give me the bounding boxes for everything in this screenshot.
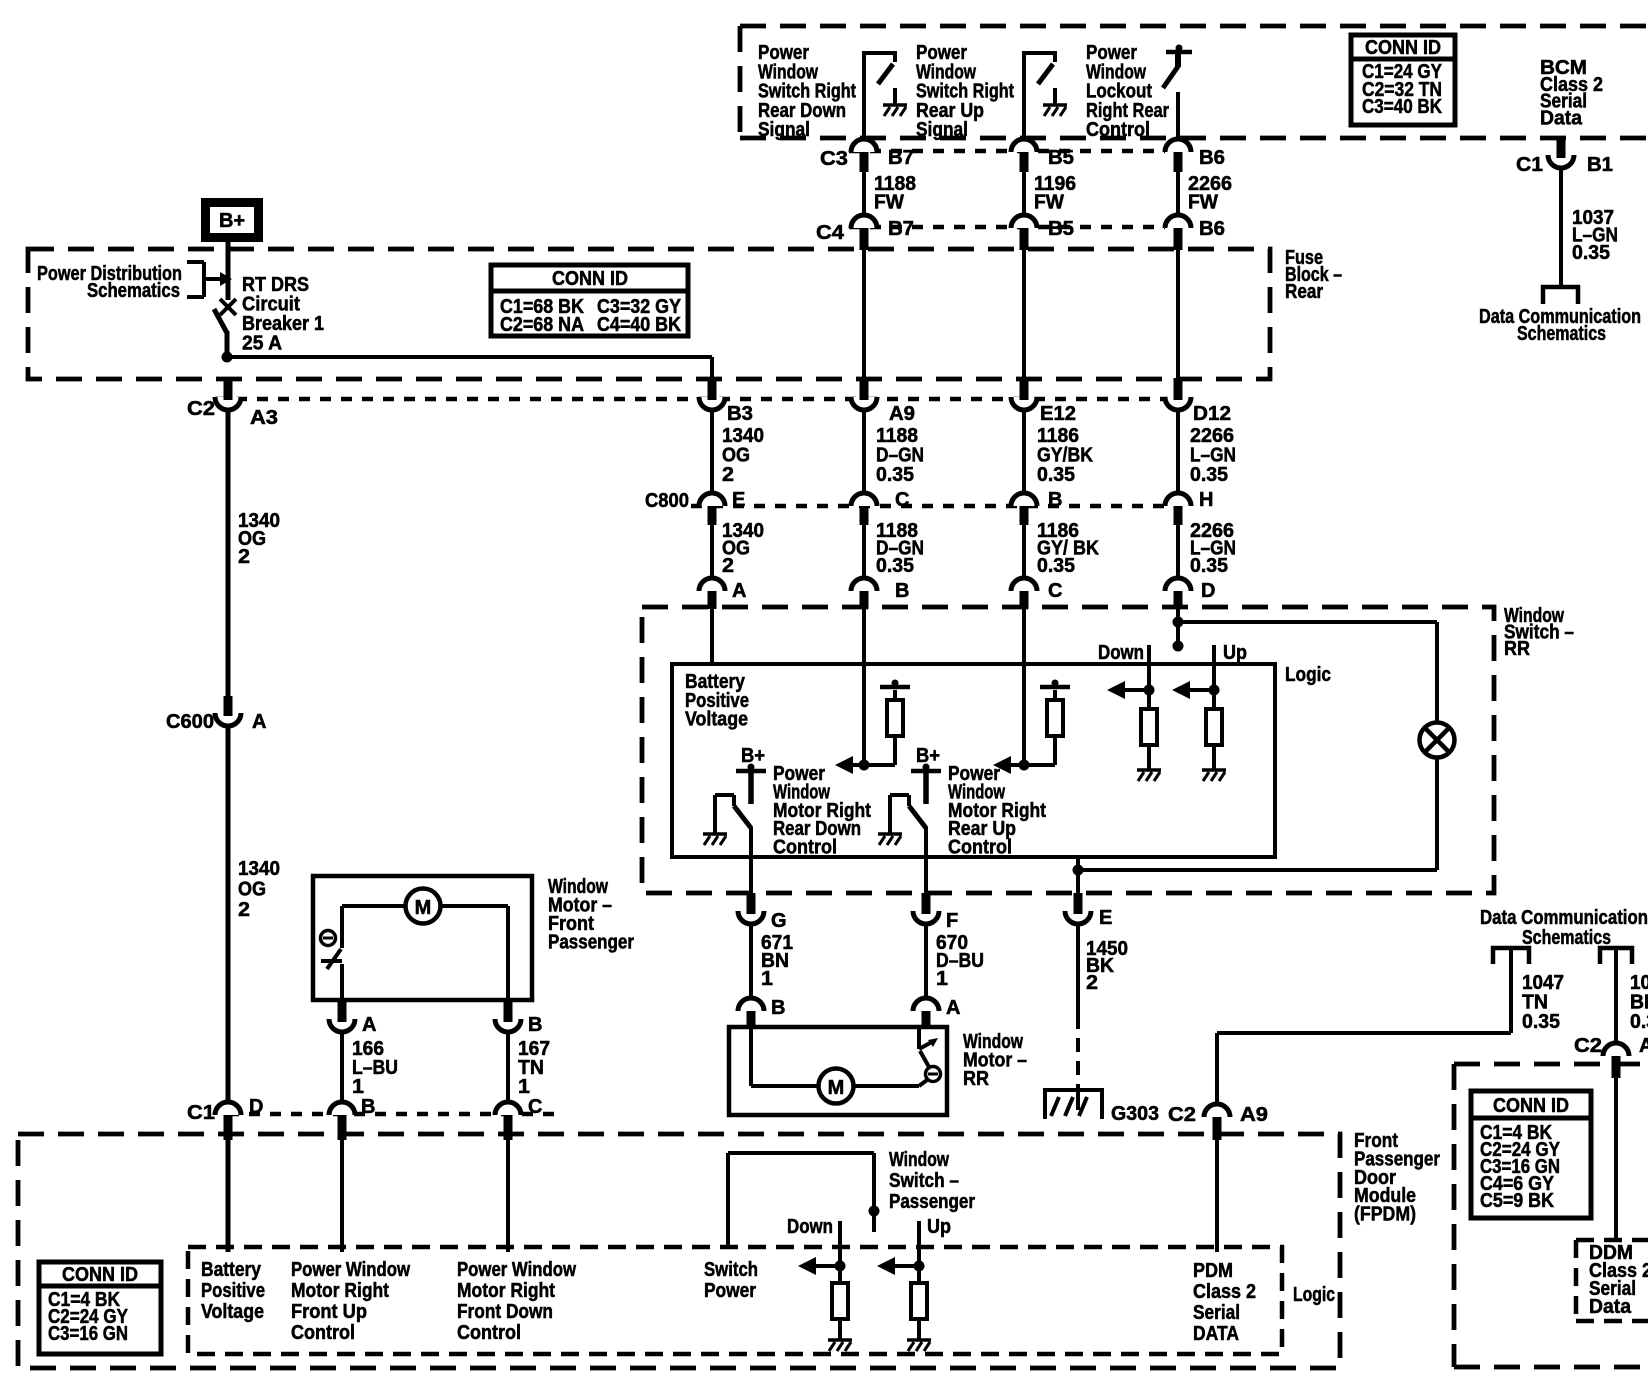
motor M (front passenger) [342, 889, 508, 1001]
junction: breaker output node [222, 352, 233, 363]
wire 1340 OG 2 (C800 E to switch A) [712, 520, 764, 578]
svg-text:Battery: Battery [201, 1259, 262, 1281]
wire 166 L-BU 1 (A to C1 B) [342, 1032, 398, 1102]
svg-text:2: 2 [238, 546, 250, 568]
label: Front Passenger Door Module (FPDM) [1354, 1130, 1440, 1226]
svg-text:M: M [828, 1077, 845, 1099]
svg-text:B+: B+ [916, 745, 940, 767]
connector C4 pin B5 [1011, 215, 1074, 250]
svg-text:B+: B+ [219, 210, 245, 232]
junction: lamp return / E pin [1073, 857, 1084, 893]
connector C600 pin A [166, 696, 266, 733]
svg-text:C2=68 NA: C2=68 NA [500, 314, 584, 336]
label: Switch Power [704, 1259, 758, 1302]
label: Fuse Block - Rear [1285, 247, 1342, 303]
svg-text:0.35: 0.35 [876, 555, 914, 577]
svg-text:B: B [1048, 489, 1062, 511]
connector C4 pin B6 [1165, 215, 1225, 250]
reference bracket to Power Distribution Schematics [187, 262, 232, 297]
in-line connector row C3 (dotted) [849, 149, 1165, 154]
label: DDM Class 2 Serial Data [1589, 1242, 1648, 1318]
connector C1 pin B [329, 1096, 375, 1140]
label: Power Window Motor Right Front Down Control [457, 1259, 576, 1344]
svg-text:CONN ID: CONN ID [62, 1264, 138, 1286]
svg-text:Passenger: Passenger [889, 1191, 975, 1213]
wire 1188 D-GN 0.35 (A9 to C800 C) [864, 410, 924, 493]
svg-text:C: C [1048, 580, 1062, 602]
svg-text:Power Window: Power Window [457, 1259, 576, 1281]
wire: rear down motor control to pin G [749, 827, 753, 893]
connector pin E12 [1011, 250, 1076, 425]
svg-text:C5=9 BK: C5=9 BK [1480, 1190, 1554, 1212]
svg-text:Control: Control [773, 837, 837, 859]
svg-text:Up: Up [927, 1216, 951, 1238]
label: Down (passenger switch) [787, 1216, 833, 1238]
svg-text:Data: Data [1589, 1296, 1632, 1318]
svg-text:A3: A3 [250, 407, 278, 429]
svg-text:E: E [1099, 907, 1112, 929]
svg-text:B1: B1 [1587, 154, 1613, 176]
svg-text:1: 1 [518, 1076, 530, 1098]
svg-text:B6: B6 [1199, 218, 1225, 240]
label: Data Communication Schematics (BCM) [1479, 306, 1641, 345]
svg-text:H: H [1199, 489, 1213, 511]
resistor: up sense [1206, 709, 1222, 769]
wire: battery positive into FPDM logic [226, 1140, 231, 1252]
thermal breaker and switch (motor front) [321, 906, 343, 1000]
svg-text:(FPDM): (FPDM) [1354, 1204, 1416, 1226]
switch contact to ground (rear up) [878, 795, 909, 845]
svg-text:C4: C4 [816, 222, 845, 244]
label: Window Motor - Front Passenger [548, 876, 634, 954]
bracket: data communication schematics (pdm) [1217, 948, 1529, 1104]
wire 1186 GY/BK 0.35 (E12 to C800 B) [1024, 410, 1093, 493]
svg-text:Motor Right: Motor Right [457, 1280, 555, 1302]
wire 1037 L-GN 0.35 [1561, 168, 1618, 287]
connector switch pin D [1165, 578, 1215, 609]
wire 2266 FW (B6 to B6) [1178, 172, 1232, 216]
svg-text:OG: OG [238, 879, 266, 901]
ground (passenger down) [828, 1338, 852, 1342]
connector C4 pin B7 [816, 215, 914, 250]
bracket: data communication schematics (ddm) [1600, 948, 1632, 1043]
connector motor pin A [913, 997, 960, 1029]
connector switch pin B [851, 578, 909, 609]
svg-text:Front Up: Front Up [291, 1301, 367, 1323]
node: rear up drive junction with arrow [993, 756, 1055, 774]
connector C1 pin C [495, 1096, 542, 1140]
label: Window Switch - Passenger [889, 1149, 975, 1213]
connector C800 pin B [1011, 489, 1062, 525]
svg-text:DATA: DATA [1193, 1323, 1239, 1345]
svg-text:Schematics: Schematics [1517, 323, 1606, 345]
connector C2 pin A (DDM) [1574, 1035, 1648, 1078]
label: PDM Class 2 Serial DATA [1193, 1260, 1256, 1345]
svg-text:Positive: Positive [201, 1280, 265, 1302]
svg-text:D: D [249, 1096, 263, 1118]
connector motor pin B [738, 997, 785, 1029]
svg-text:Up: Up [1223, 642, 1247, 664]
wire: B3 drop [710, 357, 714, 378]
wire: PDM class 2 serial data [1215, 1140, 1219, 1252]
resistor: rear up pull-up [1040, 680, 1070, 766]
svg-text:0.35: 0.35 [876, 464, 914, 486]
svg-text:B+: B+ [741, 745, 765, 767]
svg-text:0.35: 0.35 [1190, 555, 1228, 577]
svg-text:Schematics: Schematics [87, 280, 180, 302]
svg-text:G303: G303 [1111, 1103, 1159, 1125]
svg-text:B3: B3 [727, 403, 753, 425]
svg-text:B5: B5 [1048, 218, 1074, 240]
svg-text:C3=40 BK: C3=40 BK [1362, 96, 1442, 118]
wire: front up control into FPDM logic [340, 1140, 344, 1252]
svg-text:C1: C1 [1516, 154, 1543, 176]
svg-text:Logic: Logic [1293, 1284, 1335, 1306]
svg-text:A9: A9 [889, 403, 915, 425]
svg-text:1: 1 [352, 1076, 364, 1098]
svg-text:2: 2 [722, 555, 734, 577]
motor M (RR) [751, 1029, 919, 1104]
circuit breaker RT DRS Circuit Breaker 1 25 A [214, 240, 236, 359]
svg-text:Serial: Serial [1193, 1302, 1240, 1324]
wire: feed to indicator lamp [1178, 622, 1437, 723]
svg-text:Down: Down [787, 1216, 833, 1238]
FPDM logic dashed sub-box [188, 1247, 1282, 1354]
wire 1196 FW (B5 to B5) [1024, 172, 1076, 216]
svg-text:E: E [732, 489, 745, 511]
connector C2 pin A3 [187, 378, 278, 429]
svg-text:Schematics: Schematics [1522, 927, 1611, 949]
wire 2266 L-GN 0.35 (C800 H to switch D) [1178, 520, 1236, 578]
svg-text:B6: B6 [1199, 147, 1225, 169]
CONN ID table (DDM): C1=4 BK C2=24 GY C3=16 GN C4=6 GY C5=9 BK [1471, 1091, 1591, 1218]
in-line connector C800 row (dotted) [691, 504, 1168, 509]
svg-text:Passenger: Passenger [548, 932, 634, 954]
svg-text:F: F [946, 910, 958, 932]
svg-text:B7: B7 [888, 147, 914, 169]
connector C800 pin H [1165, 489, 1213, 525]
svg-text:A: A [362, 1014, 376, 1036]
label: 1047 TN 0.35 [1522, 972, 1564, 1033]
svg-text:A: A [1639, 1035, 1648, 1057]
wire 1340 OG 2 (C600 to FPDM C1 D) [228, 726, 280, 1102]
thermal breaker and switch (motor RR) [919, 1029, 941, 1086]
svg-text:Signal: Signal [758, 119, 810, 141]
connector C3 pin B5 [1011, 139, 1074, 172]
in-line connector row C4 (dotted) [849, 225, 1165, 230]
svg-text:FW: FW [1188, 192, 1218, 214]
bracket: data communication schematics (bcm) [1543, 287, 1578, 304]
CONN ID table (fuse block): C1=68 BK C2=68 NA C3=32 GY C4=40 BK [491, 265, 688, 336]
svg-text:B5: B5 [1048, 147, 1074, 169]
svg-text:Logic: Logic [1285, 664, 1331, 686]
label: Up (switch RR) [1223, 642, 1247, 664]
svg-text:C3=16 GN: C3=16 GN [48, 1323, 128, 1345]
wire 670 D-BU 1 (F to motor A) [926, 924, 984, 998]
node: rear down drive junction with arrow [835, 756, 895, 774]
svg-text:C2: C2 [187, 398, 215, 420]
wire 1188 FW (B7 to B7) [864, 172, 916, 216]
CONN ID table (FPDM): C1=4 BK C2=24 GY C3=16 GN [39, 1262, 161, 1354]
wire: front down control into FPDM logic [506, 1140, 510, 1252]
svg-text:A9: A9 [1240, 1104, 1268, 1126]
B+ terminal box [206, 203, 259, 238]
svg-text:E12: E12 [1040, 403, 1076, 425]
wire: DDM class 2 serial data [1614, 1078, 1618, 1240]
svg-text:D: D [1201, 580, 1215, 602]
svg-text:0.35: 0.35 [1190, 464, 1228, 486]
svg-text:RR: RR [963, 1068, 989, 1090]
svg-text:PDM: PDM [1193, 1260, 1233, 1282]
wire 1186 GY/ BK 0.35 (C800 B to switch C) [1024, 520, 1099, 578]
connector pin D12 [1165, 250, 1231, 425]
svg-text:Control: Control [291, 1322, 355, 1344]
svg-text:FW: FW [1034, 192, 1064, 214]
svg-text:C: C [528, 1096, 542, 1118]
connector C800 pin C [851, 489, 909, 525]
lamp: switch illumination [1420, 723, 1455, 758]
in-line connector row C1 (dotted) [228, 1112, 560, 1117]
svg-text:2: 2 [722, 464, 734, 486]
svg-text:C600: C600 [166, 711, 214, 733]
connector C3 pin B6 [1165, 139, 1225, 172]
label: Power Window Motor Right Rear Up Control [948, 763, 1046, 859]
switch S3: Power Window Lockout Right Rear [1163, 45, 1192, 142]
node: BCM Class 2 Serial Data [1540, 57, 1603, 129]
svg-text:CONN ID: CONN ID [552, 268, 628, 290]
label: Power Distribution Schematics [37, 263, 182, 302]
switch blade (rear up control) [909, 806, 926, 828]
wire: battery positive input into logic [710, 609, 714, 666]
wire: down switch leg (passenger) [798, 1221, 846, 1283]
label: Logic (window switch RR) [1285, 664, 1331, 686]
ground (passenger up) [907, 1338, 931, 1342]
label: Logic (FPDM) [1293, 1284, 1335, 1306]
connector C3 pin B7 [820, 139, 914, 172]
svg-text:0.35: 0.35 [1630, 1011, 1648, 1033]
svg-text:B: B [528, 1014, 542, 1036]
connector pin B3 [699, 378, 753, 425]
resistor: down sense (passenger) [832, 1283, 848, 1339]
label: Power Window Switch Right Rear Up Signal [916, 42, 1014, 141]
label: Power Window Lockout Right Rear Control [1086, 42, 1169, 141]
svg-text:B7: B7 [888, 218, 914, 240]
svg-text:Down: Down [1098, 642, 1144, 664]
svg-text:Control: Control [948, 837, 1012, 859]
connector pin F [913, 893, 958, 932]
svg-text:CONN ID: CONN ID [1365, 37, 1441, 59]
ground G303 [1045, 1090, 1102, 1119]
label: Battery Positive Voltage (logic) [685, 671, 749, 731]
label: Battery Positive Voltage (FPDM) [201, 1259, 265, 1323]
svg-text:Switch: Switch [704, 1259, 758, 1281]
connector motor front pin B [495, 1001, 542, 1036]
label: Data Communication Schematics (lower) [1480, 907, 1648, 949]
svg-text:C2: C2 [1574, 1035, 1602, 1057]
window switch assembly dashed box (top) [740, 26, 1648, 138]
connector C800 label [645, 490, 689, 512]
connector C1 pin B1 (BCM) [1516, 139, 1613, 176]
svg-text:Data Communication: Data Communication [1480, 907, 1648, 929]
svg-text:Switch –: Switch – [889, 1170, 959, 1192]
label: Down (switch RR) [1098, 642, 1144, 664]
svg-text:B: B [361, 1096, 375, 1118]
connector motor front pin A [329, 1001, 376, 1036]
logic solid box [672, 664, 1275, 857]
label: G303 [1111, 1103, 1159, 1125]
svg-text:C: C [895, 489, 909, 511]
svg-text:Motor Right: Motor Right [291, 1280, 389, 1302]
svg-text:Control: Control [457, 1322, 521, 1344]
ground (up sense) [1202, 768, 1226, 772]
svg-text:0.35: 0.35 [1522, 1011, 1560, 1033]
label: Power Window Motor Right Front Up Control [291, 1259, 410, 1344]
svg-text:M: M [415, 897, 432, 919]
Fuse Block - Rear dashed box [28, 249, 1270, 379]
label: RT DRS Circuit Breaker 1 25 A [242, 274, 324, 355]
wire 2266 L-GN 0.35 (D12 to C800 H) [1178, 410, 1236, 493]
label: 1056 BN 0.35 (clipped) [1630, 972, 1648, 1033]
svg-text:Power Window: Power Window [291, 1259, 410, 1281]
connector C800 pin E [699, 489, 745, 525]
label: Window Switch - RR [1504, 605, 1574, 660]
svg-text:Voltage: Voltage [685, 709, 748, 731]
Window Motor - RR box [729, 1027, 947, 1115]
Front Passenger Door Module dashed box [18, 1134, 1340, 1368]
label: Power Window Switch Right Rear Down Signal [758, 42, 856, 141]
svg-text:0.35: 0.35 [1572, 242, 1610, 264]
svg-text:Signal: Signal [916, 119, 968, 141]
wire 1450 BK 2 (E to G303) [1078, 924, 1128, 1090]
svg-text:C800: C800 [645, 490, 689, 512]
resistor: rear down pull-up [880, 680, 910, 766]
Window Switch - Passenger common wiring [728, 1153, 880, 1249]
contact: B+ feed (rear down) [736, 745, 766, 804]
svg-text:Window: Window [889, 1149, 949, 1171]
svg-text:1: 1 [936, 968, 948, 990]
connector pin E (switch) [1065, 893, 1112, 929]
wire: up switch leg (passenger) [877, 1221, 925, 1283]
wire 167 TN 1 (B to C1 C) [508, 1032, 550, 1102]
svg-text:Front Down: Front Down [457, 1301, 553, 1323]
svg-text:B: B [771, 997, 785, 1019]
connector pin G [738, 893, 787, 932]
label: Power Window Motor Right Rear Down Control [773, 763, 871, 859]
in-line connector row C2/C800 feed (dotted) [215, 397, 1168, 402]
svg-text:Control: Control [1086, 119, 1150, 141]
DDM dashed box [1454, 1064, 1648, 1367]
svg-text:C3: C3 [820, 148, 848, 170]
wire 1188 D-GN 0.35 (C800 C to switch B) [864, 520, 924, 578]
svg-text:A: A [946, 997, 960, 1019]
resistor: down sense [1141, 709, 1157, 769]
svg-text:A: A [252, 711, 266, 733]
svg-text:D12: D12 [1193, 403, 1231, 425]
wire: down switch leg [1107, 645, 1155, 709]
svg-text:Class 2: Class 2 [1193, 1281, 1256, 1303]
svg-text:B: B [895, 580, 909, 602]
svg-text:C4=40 BK: C4=40 BK [597, 314, 681, 336]
wire: rear up signal into logic [1022, 609, 1026, 765]
label: Up (passenger switch) [927, 1216, 951, 1238]
svg-text:Rear: Rear [1285, 281, 1323, 303]
svg-text:A: A [732, 580, 746, 602]
Window Switch - RR dashed box [642, 607, 1494, 893]
svg-text:1340: 1340 [238, 858, 280, 880]
label: Window Motor - RR [963, 1031, 1027, 1090]
switch S1: Power Window Switch Right Rear Down [862, 51, 907, 141]
svg-text:2: 2 [1086, 972, 1098, 994]
svg-text:Power: Power [704, 1280, 756, 1302]
wire: up switch leg [1172, 645, 1220, 709]
switch contact to ground (rear down) [703, 795, 734, 845]
svg-text:25 A: 25 A [242, 333, 282, 355]
wire: lamp return to E [1078, 757, 1437, 870]
wire 671 BN 1 (G to motor B) [751, 924, 793, 998]
connector C2 pin A9 (FPDM) [1168, 1104, 1268, 1140]
svg-text:0.35: 0.35 [1037, 464, 1075, 486]
wire: breaker output feed to B3 [227, 355, 712, 359]
Window Motor - Front Passenger box [313, 876, 532, 1000]
resistor: up sense (passenger) [911, 1283, 927, 1339]
svg-text:1: 1 [761, 968, 773, 990]
switch blade (rear down control) [734, 806, 751, 828]
svg-text:CONN ID: CONN ID [1493, 1095, 1569, 1117]
switch S2: Power Window Switch Right Rear Up [1022, 51, 1067, 141]
svg-text:Voltage: Voltage [201, 1301, 264, 1323]
ground (down sense) [1137, 768, 1161, 772]
svg-text:C2: C2 [1168, 1104, 1196, 1126]
svg-text:0.35: 0.35 [1037, 555, 1075, 577]
wire 1340 OG 2 (C2 A3 to C600) [228, 410, 280, 696]
svg-text:G: G [771, 910, 787, 932]
connector switch pin C [1011, 578, 1062, 609]
connector pin A9 [851, 250, 915, 425]
wire: rear down signal into logic [862, 609, 866, 765]
wire: rear up motor control to pin F [924, 827, 928, 893]
connector C1 pin D [187, 1096, 263, 1140]
CONN ID table (switch assembly): C1=24 GY C2=32 TN C3=40 BK [1351, 35, 1455, 125]
svg-text:C1: C1 [187, 1102, 215, 1124]
svg-text:FW: FW [874, 192, 904, 214]
DDM node dashed box [1576, 1240, 1648, 1321]
svg-text:Data: Data [1540, 107, 1583, 129]
wire: lockout feed from D [1173, 609, 1184, 652]
svg-text:RR: RR [1504, 638, 1530, 660]
connector switch pin A [699, 578, 746, 609]
svg-text:2: 2 [238, 899, 250, 921]
contact: B+ feed (rear up) [911, 745, 941, 804]
wire 1340 OG 2 (B3 to C800 E) [712, 410, 764, 493]
